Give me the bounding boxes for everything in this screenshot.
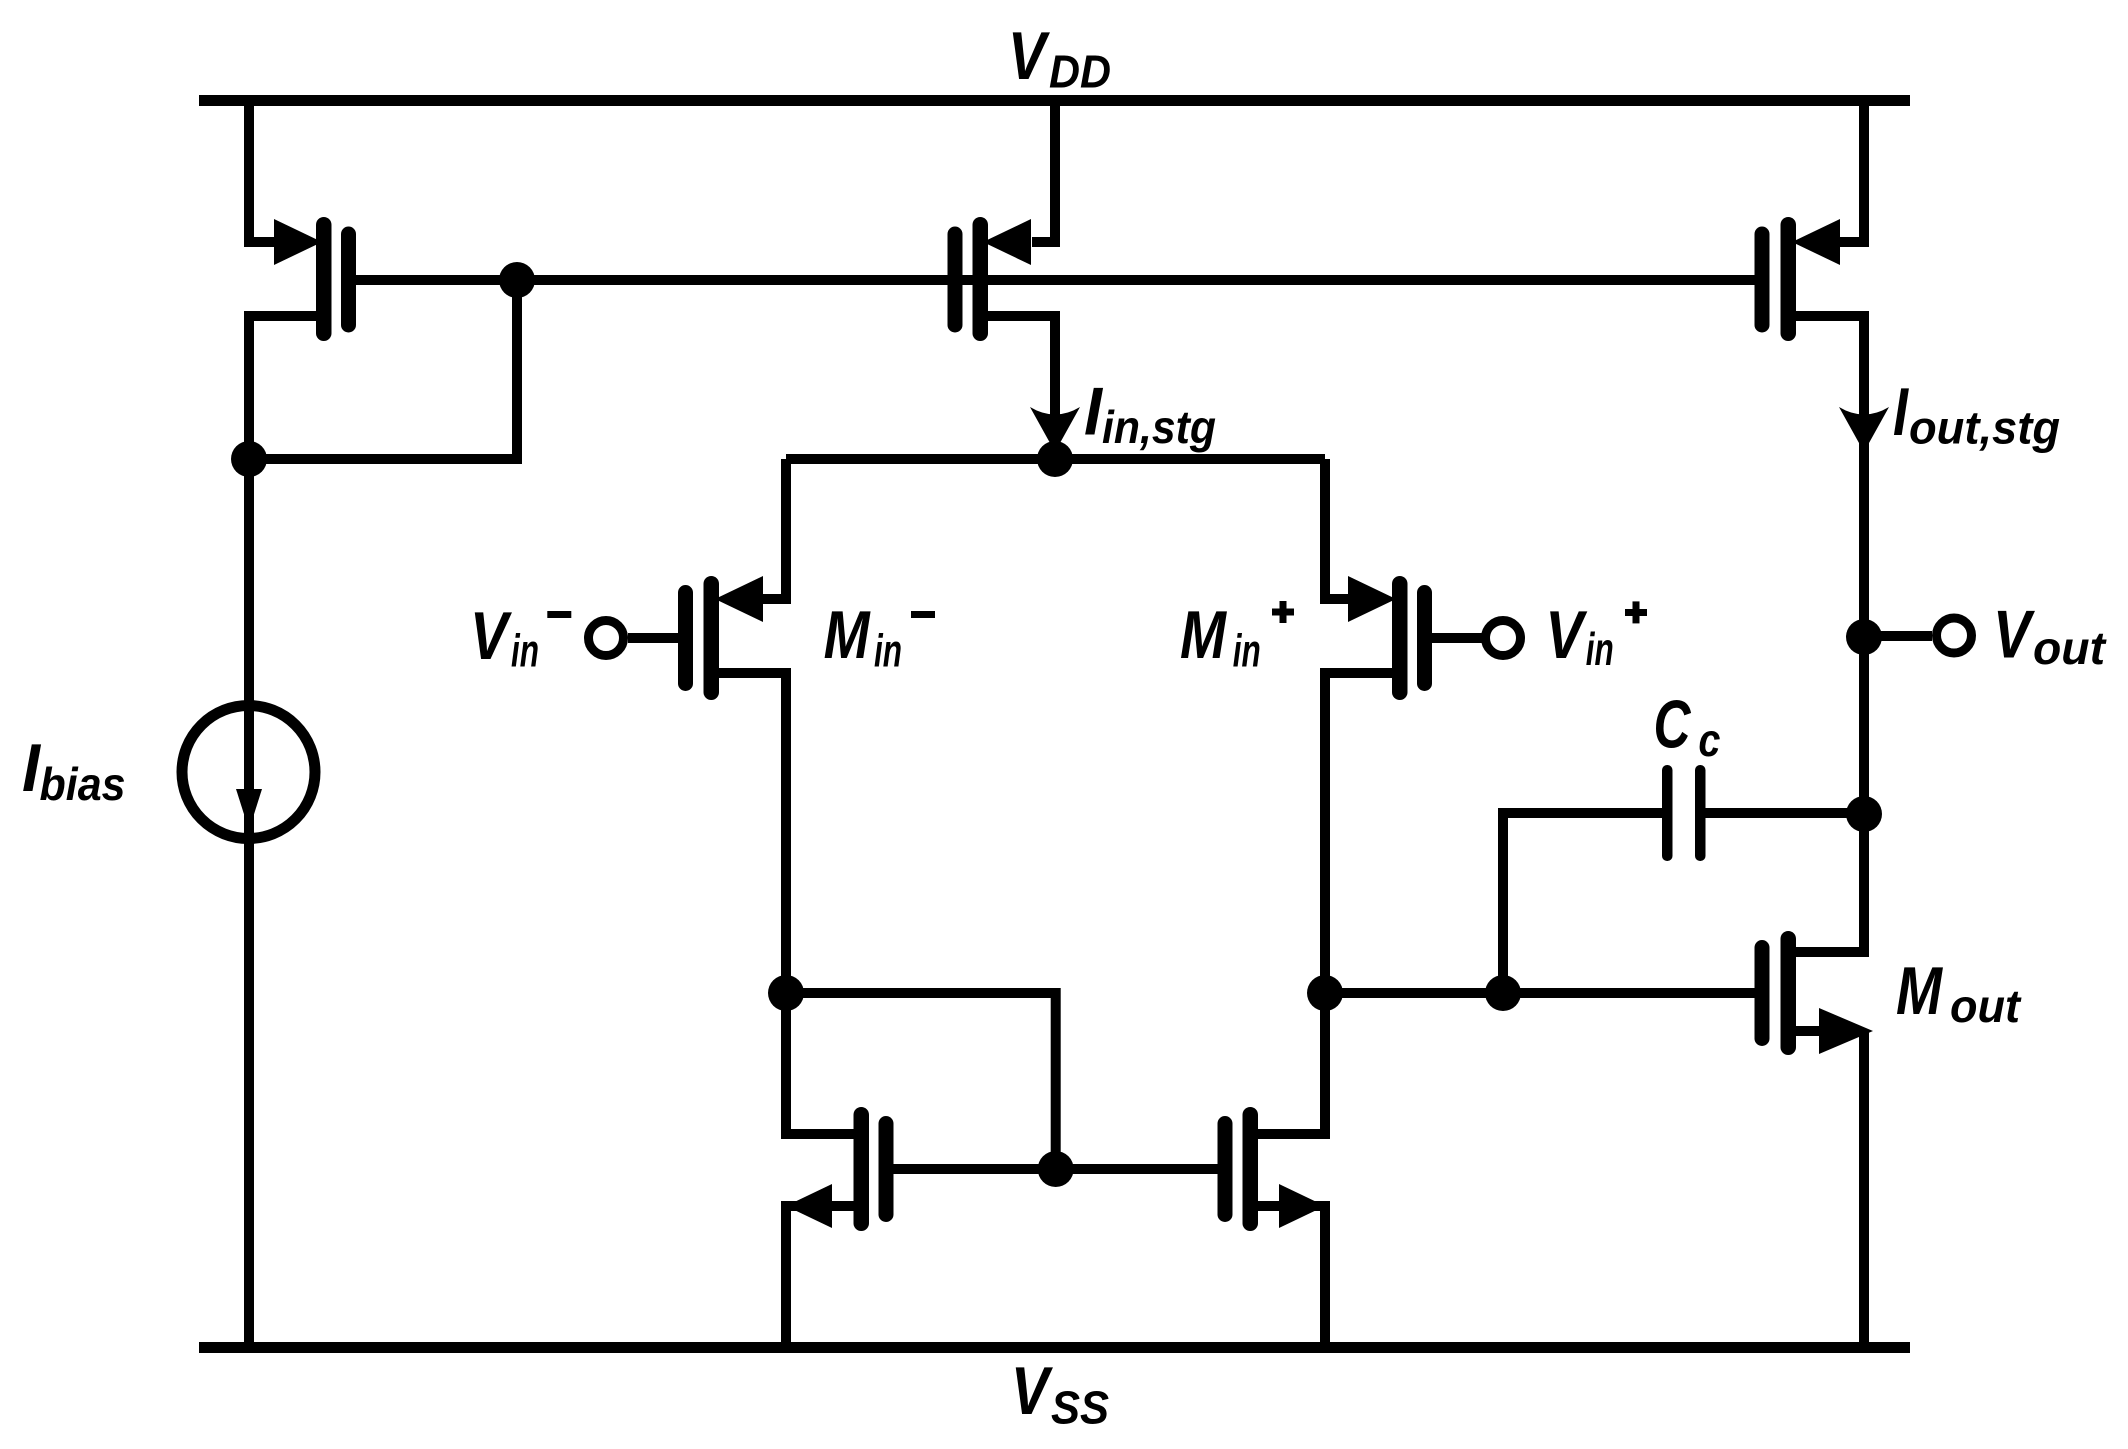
svg-text:C: C <box>1654 686 1692 762</box>
svg-text:M: M <box>1180 597 1227 673</box>
svg-text:V: V <box>1993 597 2036 673</box>
svg-text:in: in <box>511 624 539 676</box>
svg-text:out: out <box>1950 980 2022 1032</box>
svg-text:I: I <box>1084 374 1104 450</box>
svg-text:V: V <box>470 598 513 674</box>
svg-text:M: M <box>824 597 871 673</box>
svg-text:in: in <box>1233 625 1261 677</box>
svg-text:V: V <box>1008 18 1051 94</box>
svg-text:out: out <box>2033 622 2107 674</box>
svg-text:in,stg: in,stg <box>1102 401 1216 453</box>
svg-text:out,stg: out,stg <box>1909 402 2060 454</box>
svg-text:in: in <box>874 625 902 677</box>
svg-text:V: V <box>1545 597 1588 673</box>
svg-text:DD: DD <box>1049 46 1111 98</box>
svg-text:V: V <box>1011 1353 1054 1429</box>
svg-text:I: I <box>1893 374 1910 450</box>
svg-text:bias: bias <box>40 758 126 810</box>
svg-text:c: c <box>1698 714 1720 766</box>
svg-text:in: in <box>1586 623 1614 675</box>
svg-text:SS: SS <box>1051 1382 1109 1434</box>
svg-text:M: M <box>1896 953 1943 1029</box>
